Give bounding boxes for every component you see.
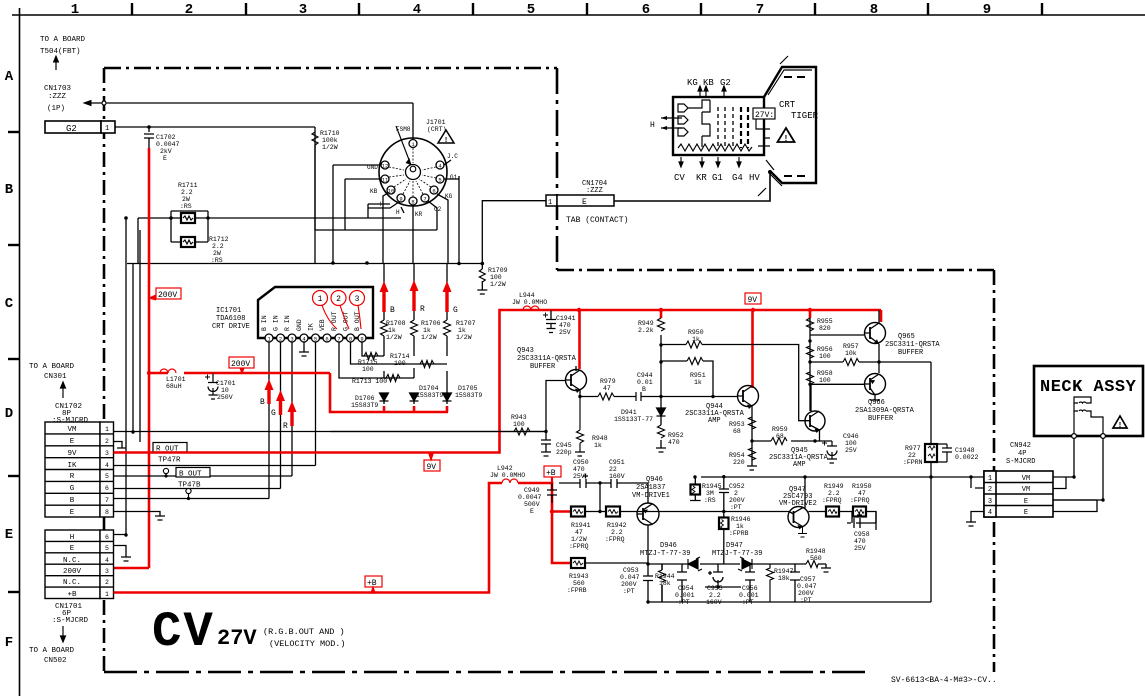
svg-text:27V:: 27V:	[755, 111, 774, 120]
svg-text::PT: :PT	[678, 599, 690, 606]
svg-text:68: 68	[776, 433, 784, 440]
svg-text:9: 9	[360, 336, 363, 343]
svg-text:G4: G4	[732, 173, 743, 183]
svg-text:N.C.: N.C.	[63, 557, 81, 565]
svg-text:CV: CV	[674, 173, 685, 183]
svg-text:CN502: CN502	[44, 657, 67, 665]
svg-text:0.0047: 0.0047	[518, 494, 542, 501]
svg-text:6: 6	[432, 188, 435, 195]
svg-text:R1949: R1949	[824, 483, 844, 490]
svg-text:R: R	[420, 305, 425, 314]
svg-text:2SC3311-QRSTA: 2SC3311-QRSTA	[885, 341, 940, 349]
svg-text:T504(FBT): T504(FBT)	[40, 48, 81, 56]
svg-text:R IN: R IN	[284, 315, 291, 331]
svg-text:5: 5	[105, 473, 109, 480]
svg-text:25V: 25V	[559, 329, 571, 336]
svg-text:22: 22	[609, 466, 617, 473]
svg-text:E: E	[70, 509, 75, 517]
svg-text:VEB: VEB	[319, 319, 326, 331]
svg-text:2: 2	[105, 438, 109, 445]
svg-text:KB: KB	[703, 78, 714, 88]
svg-text:KG: KG	[687, 78, 698, 88]
svg-text:220: 220	[733, 459, 745, 466]
svg-text:3M: 3M	[706, 490, 714, 497]
svg-text:R977: R977	[905, 445, 921, 452]
svg-text:TO A BOARD: TO A BOARD	[29, 647, 75, 655]
svg-text:200V: 200V	[158, 291, 177, 300]
svg-text:1: 1	[548, 199, 552, 207]
svg-text:9: 9	[983, 2, 991, 18]
svg-text:D1704: D1704	[419, 385, 439, 392]
svg-text:15S83T9: 15S83T9	[351, 402, 378, 409]
svg-text:4: 4	[413, 2, 421, 18]
svg-text:2SA1309A-QRSTA: 2SA1309A-QRSTA	[855, 407, 915, 415]
svg-text:TAB (CONTACT): TAB (CONTACT)	[566, 216, 628, 225]
svg-text:8: 8	[411, 199, 414, 206]
svg-text:C1948: C1948	[955, 447, 975, 454]
svg-text:6: 6	[325, 336, 328, 343]
svg-text:BUFFER: BUFFER	[530, 363, 556, 371]
svg-text:H: H	[396, 209, 400, 216]
svg-text:KR: KR	[415, 211, 423, 218]
svg-text:E: E	[530, 508, 534, 515]
svg-text:470: 470	[573, 466, 585, 473]
svg-text:2.2: 2.2	[181, 189, 193, 196]
svg-text:TP47R: TP47R	[158, 457, 181, 465]
svg-text:C944: C944	[637, 372, 653, 379]
svg-text:G: G	[70, 485, 75, 493]
svg-text::S-MJCRD: :S-MJCRD	[52, 617, 89, 625]
svg-text:1: 1	[105, 125, 109, 133]
svg-text:D: D	[5, 406, 13, 422]
svg-text:L942: L942	[497, 465, 513, 472]
svg-text:500V: 500V	[524, 501, 540, 508]
svg-text:2kV: 2kV	[160, 148, 172, 155]
svg-text:100: 100	[490, 274, 502, 281]
svg-text:470: 470	[854, 538, 866, 545]
svg-text:18k: 18k	[778, 575, 790, 582]
svg-text:6: 6	[105, 534, 109, 541]
svg-text:2: 2	[105, 579, 109, 586]
svg-text:Q966: Q966	[868, 399, 885, 407]
svg-text:100: 100	[394, 360, 406, 367]
svg-text:68uH: 68uH	[166, 383, 182, 390]
svg-text:G2: G2	[66, 124, 77, 134]
svg-text:BUFFER: BUFFER	[898, 349, 924, 357]
svg-text:R1711: R1711	[178, 182, 198, 189]
svg-text:MTZJ-T-77-39: MTZJ-T-77-39	[712, 550, 762, 558]
svg-text:AMP: AMP	[708, 417, 721, 425]
svg-text:R952: R952	[668, 432, 684, 439]
svg-text:470: 470	[668, 439, 680, 446]
svg-text:R1950: R1950	[852, 483, 872, 490]
svg-text:C958: C958	[854, 531, 870, 538]
svg-text:3: 3	[988, 498, 992, 506]
svg-text:F: F	[5, 635, 13, 651]
svg-text:IK: IK	[308, 323, 315, 331]
svg-text:7: 7	[756, 2, 764, 18]
svg-text:E: E	[1024, 498, 1028, 506]
svg-text:H: H	[70, 534, 75, 542]
svg-text:J1701: J1701	[426, 119, 446, 126]
svg-text:9V: 9V	[67, 450, 77, 458]
svg-text:VM-DRIVE1: VM-DRIVE1	[632, 492, 670, 500]
svg-text:1/2W: 1/2W	[421, 334, 437, 341]
svg-text:R958: R958	[817, 370, 833, 377]
svg-text:47: 47	[603, 385, 611, 392]
svg-text:C951: C951	[609, 459, 625, 466]
svg-text:R1943: R1943	[569, 573, 589, 580]
svg-text:200V: 200V	[231, 360, 250, 369]
svg-text:3: 3	[290, 336, 293, 343]
svg-text:D946: D946	[660, 542, 677, 550]
svg-text:R: R	[283, 422, 288, 431]
svg-text:VM: VM	[67, 426, 77, 434]
svg-text:2: 2	[279, 336, 282, 343]
svg-text:R979: R979	[600, 378, 616, 385]
svg-text:5: 5	[527, 2, 535, 18]
svg-text:9: 9	[399, 196, 402, 203]
svg-text:2.2: 2.2	[611, 529, 623, 536]
svg-text:(CRT): (CRT)	[427, 126, 447, 133]
svg-text:E: E	[5, 527, 13, 543]
svg-text:!: !	[1119, 420, 1122, 429]
svg-text:100: 100	[513, 421, 525, 428]
svg-text:11: 11	[382, 177, 389, 184]
svg-text:R949: R949	[638, 320, 654, 327]
svg-text:!: !	[785, 134, 788, 143]
svg-text:1/2W: 1/2W	[322, 144, 338, 151]
svg-text:10k: 10k	[845, 350, 857, 357]
svg-text:D941: D941	[621, 409, 637, 416]
svg-text:R1948: R1948	[806, 548, 826, 555]
svg-text:8: 8	[349, 336, 352, 343]
svg-text:2.2: 2.2	[828, 490, 840, 497]
svg-text:S-MJCRD: S-MJCRD	[1006, 458, 1035, 466]
svg-text:250V: 250V	[217, 394, 233, 401]
svg-text:1: 1	[71, 2, 79, 18]
svg-text:JW 0.0MHO: JW 0.0MHO	[490, 472, 525, 479]
svg-text:68: 68	[733, 428, 741, 435]
svg-text:R1712: R1712	[209, 236, 229, 243]
svg-text:4: 4	[105, 462, 109, 469]
svg-text:220p: 220p	[556, 449, 572, 456]
svg-text:C1941: C1941	[556, 315, 576, 322]
svg-text:470: 470	[559, 322, 571, 329]
svg-text:G2: G2	[720, 78, 731, 88]
svg-text:D1705: D1705	[458, 385, 478, 392]
svg-text:C953: C953	[623, 567, 639, 574]
svg-text:R957: R957	[843, 343, 859, 350]
svg-text:G: G	[271, 409, 276, 418]
svg-text:SV-6613<BA-4-M#3>-CV..: SV-6613<BA-4-M#3>-CV..	[891, 676, 997, 685]
svg-text:7: 7	[337, 336, 340, 343]
svg-text::RS: :RS	[180, 203, 192, 210]
svg-text:2: 2	[734, 490, 738, 497]
svg-text:CN942: CN942	[1010, 442, 1031, 450]
svg-text:FSM8: FSM8	[396, 126, 411, 133]
svg-text:C956: C956	[742, 585, 758, 592]
svg-text:2W: 2W	[213, 250, 221, 257]
svg-text:CN1703: CN1703	[44, 85, 72, 93]
svg-text::FPRQ: :FPRQ	[569, 543, 589, 550]
svg-text:3: 3	[105, 568, 109, 575]
svg-text:R953: R953	[729, 421, 745, 428]
svg-text:22: 22	[908, 452, 916, 459]
svg-text::FPRQ: :FPRQ	[822, 497, 842, 504]
svg-text:0.0022: 0.0022	[955, 454, 979, 461]
svg-text:R: R	[70, 473, 75, 481]
svg-text:200V: 200V	[621, 581, 637, 588]
svg-text:D947: D947	[726, 542, 743, 550]
svg-text:NECK ASSY: NECK ASSY	[1040, 378, 1137, 397]
svg-text:R1710: R1710	[320, 130, 340, 137]
svg-text:6: 6	[642, 2, 650, 18]
svg-text:C1702: C1702	[156, 134, 176, 141]
svg-text:AMP: AMP	[793, 461, 806, 469]
svg-text:160V: 160V	[706, 599, 722, 606]
svg-text:160V: 160V	[609, 473, 625, 480]
svg-text:3: 3	[355, 295, 360, 304]
svg-text:(1P): (1P)	[47, 105, 65, 113]
svg-text:25V: 25V	[845, 447, 857, 454]
svg-text:100k: 100k	[322, 137, 338, 144]
svg-text:1: 1	[105, 426, 109, 433]
svg-text:1: 1	[105, 591, 109, 598]
svg-text:D1706: D1706	[355, 395, 375, 402]
svg-text:B: B	[390, 306, 395, 315]
svg-text:VM-DRIVE2: VM-DRIVE2	[779, 500, 817, 508]
svg-text:C949: C949	[524, 487, 540, 494]
svg-text:(VELOCITY MOD.): (VELOCITY MOD.)	[269, 639, 346, 649]
svg-text:2: 2	[336, 295, 341, 304]
svg-text:2.2: 2.2	[709, 592, 721, 599]
svg-text:2.2k: 2.2k	[638, 327, 654, 334]
svg-text:1/2W: 1/2W	[386, 334, 402, 341]
svg-text:R1944: R1944	[655, 573, 675, 580]
svg-text:0.047: 0.047	[620, 574, 640, 581]
svg-text:VM: VM	[1022, 486, 1030, 494]
svg-text:9V: 9V	[748, 296, 758, 305]
svg-text:1SS133T-77: 1SS133T-77	[614, 416, 653, 423]
svg-text::FPRN: :FPRN	[903, 459, 923, 466]
svg-text:R950: R950	[688, 329, 704, 336]
svg-text:C952: C952	[729, 483, 745, 490]
svg-text:R1708: R1708	[386, 320, 406, 327]
svg-text:IK: IK	[67, 462, 77, 470]
svg-text:1: 1	[988, 475, 992, 483]
svg-text:9V: 9V	[427, 463, 437, 472]
svg-text:0.01: 0.01	[637, 379, 653, 386]
svg-text::FPRQ: :FPRQ	[605, 536, 625, 543]
svg-text:(R.G.B.OUT AND ): (R.G.B.OUT AND )	[263, 627, 345, 637]
svg-text:R954: R954	[729, 452, 745, 459]
svg-text:1/2W: 1/2W	[456, 334, 472, 341]
svg-text:12: 12	[382, 163, 389, 170]
svg-text:10: 10	[221, 387, 229, 394]
svg-text:0.001: 0.001	[739, 592, 759, 599]
svg-text:18k: 18k	[659, 580, 671, 587]
svg-text:G IN: G IN	[273, 315, 280, 331]
svg-text:E: E	[70, 545, 75, 553]
svg-text:560: 560	[810, 555, 822, 562]
svg-text:H: H	[650, 121, 655, 130]
svg-text:R1707: R1707	[456, 320, 476, 327]
svg-text:4P: 4P	[1018, 450, 1026, 458]
svg-text:100: 100	[819, 377, 831, 384]
svg-text:Q946: Q946	[646, 476, 663, 484]
svg-text:2SC3311A-QRSTA: 2SC3311A-QRSTA	[517, 355, 577, 363]
svg-text:R1715: R1715	[358, 359, 378, 366]
svg-text:7: 7	[423, 196, 426, 203]
svg-text:1k: 1k	[458, 327, 466, 334]
svg-text:+B: +B	[546, 469, 556, 478]
svg-text:E: E	[70, 438, 75, 446]
svg-text:B OUT: B OUT	[179, 471, 202, 479]
svg-text:G: G	[453, 306, 458, 315]
svg-text:R OUT: R OUT	[331, 311, 338, 331]
svg-text:TP47B: TP47B	[178, 482, 201, 490]
svg-text:B: B	[5, 182, 14, 198]
svg-text:27V: 27V	[217, 626, 257, 651]
svg-text::PT: :PT	[623, 588, 635, 595]
svg-text:100: 100	[845, 440, 857, 447]
svg-text:CN301: CN301	[44, 373, 67, 381]
svg-text:2: 2	[988, 486, 992, 494]
svg-text:R1942: R1942	[607, 522, 627, 529]
svg-text:B IN: B IN	[261, 315, 268, 331]
svg-text:IC1701: IC1701	[216, 307, 241, 315]
svg-text:R1706: R1706	[421, 320, 441, 327]
svg-text::FPRB: :FPRB	[567, 587, 587, 594]
svg-text::PT: :PT	[730, 504, 742, 511]
svg-text:JW 0.0MHO: JW 0.0MHO	[512, 299, 547, 306]
svg-text:J.C: J.C	[447, 153, 458, 160]
svg-text:R955: R955	[817, 318, 833, 325]
svg-text:8: 8	[870, 2, 878, 18]
svg-text:3: 3	[105, 450, 109, 457]
svg-text:B: B	[260, 398, 265, 407]
svg-text:G1: G1	[450, 174, 458, 181]
svg-text:KB: KB	[370, 188, 378, 195]
svg-text:5: 5	[438, 177, 441, 184]
svg-text:2SA1837: 2SA1837	[636, 484, 665, 492]
svg-text::PT: :PT	[742, 599, 754, 606]
svg-text:KR: KR	[696, 173, 707, 183]
svg-text:C1701: C1701	[216, 380, 236, 387]
svg-text::PT: :PT	[800, 597, 812, 604]
svg-text:6: 6	[105, 485, 109, 492]
svg-text:C: C	[5, 296, 14, 312]
svg-text:5: 5	[105, 545, 109, 552]
svg-text:G1: G1	[712, 173, 723, 183]
svg-text:4: 4	[988, 509, 992, 517]
svg-text:10: 10	[388, 188, 395, 195]
svg-text:B: B	[642, 386, 646, 393]
svg-text:CV: CV	[152, 604, 215, 660]
svg-text:820: 820	[819, 325, 831, 332]
svg-text:0.047: 0.047	[797, 583, 817, 590]
svg-text:C945: C945	[556, 442, 572, 449]
svg-text:TO A BOARD: TO A BOARD	[40, 36, 86, 44]
svg-text:C957: C957	[800, 576, 816, 583]
svg-text:C946: C946	[843, 433, 859, 440]
svg-text:TIGER: TIGER	[791, 111, 819, 121]
svg-text:2W: 2W	[182, 196, 190, 203]
svg-text:N.C.: N.C.	[63, 579, 81, 587]
svg-text::ZZZ: :ZZZ	[48, 93, 67, 101]
svg-text:1k: 1k	[692, 336, 700, 343]
svg-text:BUFFER: BUFFER	[868, 415, 894, 423]
svg-text:1/2W: 1/2W	[571, 536, 587, 543]
svg-text:Q965: Q965	[898, 333, 915, 341]
svg-text:TDA6108: TDA6108	[216, 315, 245, 323]
svg-text:E: E	[1024, 509, 1028, 517]
svg-text:R959: R959	[772, 426, 788, 433]
svg-text:R1709: R1709	[488, 267, 508, 274]
svg-text:C954: C954	[678, 585, 694, 592]
svg-text:200V: 200V	[63, 568, 82, 576]
svg-text:VM: VM	[1022, 475, 1030, 483]
svg-text:R948: R948	[592, 435, 608, 442]
svg-text:R1945: R1945	[702, 483, 722, 490]
svg-text:1/2W: 1/2W	[490, 281, 506, 288]
svg-text:200V: 200V	[798, 590, 814, 597]
svg-text:L1701: L1701	[166, 376, 186, 383]
svg-text:0.001: 0.001	[675, 592, 695, 599]
svg-text:R1941: R1941	[571, 522, 591, 529]
svg-text:2: 2	[185, 2, 193, 18]
svg-text:1k: 1k	[594, 442, 602, 449]
svg-text:5: 5	[314, 336, 317, 343]
svg-text:15S83T9: 15S83T9	[416, 392, 443, 399]
svg-text:25V: 25V	[854, 545, 866, 552]
svg-text:1k: 1k	[736, 523, 744, 530]
svg-text:R951: R951	[690, 372, 706, 379]
svg-text:+B: +B	[367, 579, 377, 588]
svg-text:C955: C955	[707, 585, 723, 592]
svg-text:A: A	[5, 69, 14, 85]
svg-text:B: B	[70, 497, 75, 505]
svg-text:R956: R956	[817, 346, 833, 353]
svg-text:TO A BOARD: TO A BOARD	[29, 363, 75, 371]
svg-text:1: 1	[318, 295, 323, 304]
svg-text:R1946: R1946	[731, 516, 751, 523]
svg-text:HV: HV	[749, 173, 760, 183]
svg-text:7: 7	[105, 497, 109, 504]
svg-text:1k: 1k	[388, 327, 396, 334]
svg-text:CRT: CRT	[779, 100, 796, 110]
svg-text:4: 4	[105, 557, 109, 564]
svg-text:100: 100	[362, 366, 374, 373]
svg-text:!: !	[445, 137, 447, 144]
svg-text:R1714: R1714	[390, 353, 410, 360]
svg-text:E: E	[163, 155, 167, 162]
svg-text:R1713 100: R1713 100	[352, 378, 387, 385]
svg-text:R1947: R1947	[774, 568, 794, 575]
svg-text::FPRQ: :FPRQ	[850, 497, 870, 504]
svg-text::FPRB: :FPRB	[729, 530, 749, 537]
svg-text:2.2: 2.2	[212, 243, 224, 250]
svg-text:Q943: Q943	[517, 347, 534, 355]
svg-text:E: E	[582, 198, 587, 207]
svg-text:8: 8	[105, 509, 109, 516]
svg-text:0.0047: 0.0047	[156, 141, 180, 148]
svg-text:CRT DRIVE: CRT DRIVE	[212, 323, 250, 331]
svg-text::ZZZ: :ZZZ	[586, 187, 603, 195]
svg-text:MTZJ-T-77-39: MTZJ-T-77-39	[640, 550, 690, 558]
svg-text::RS: :RS	[211, 257, 223, 264]
